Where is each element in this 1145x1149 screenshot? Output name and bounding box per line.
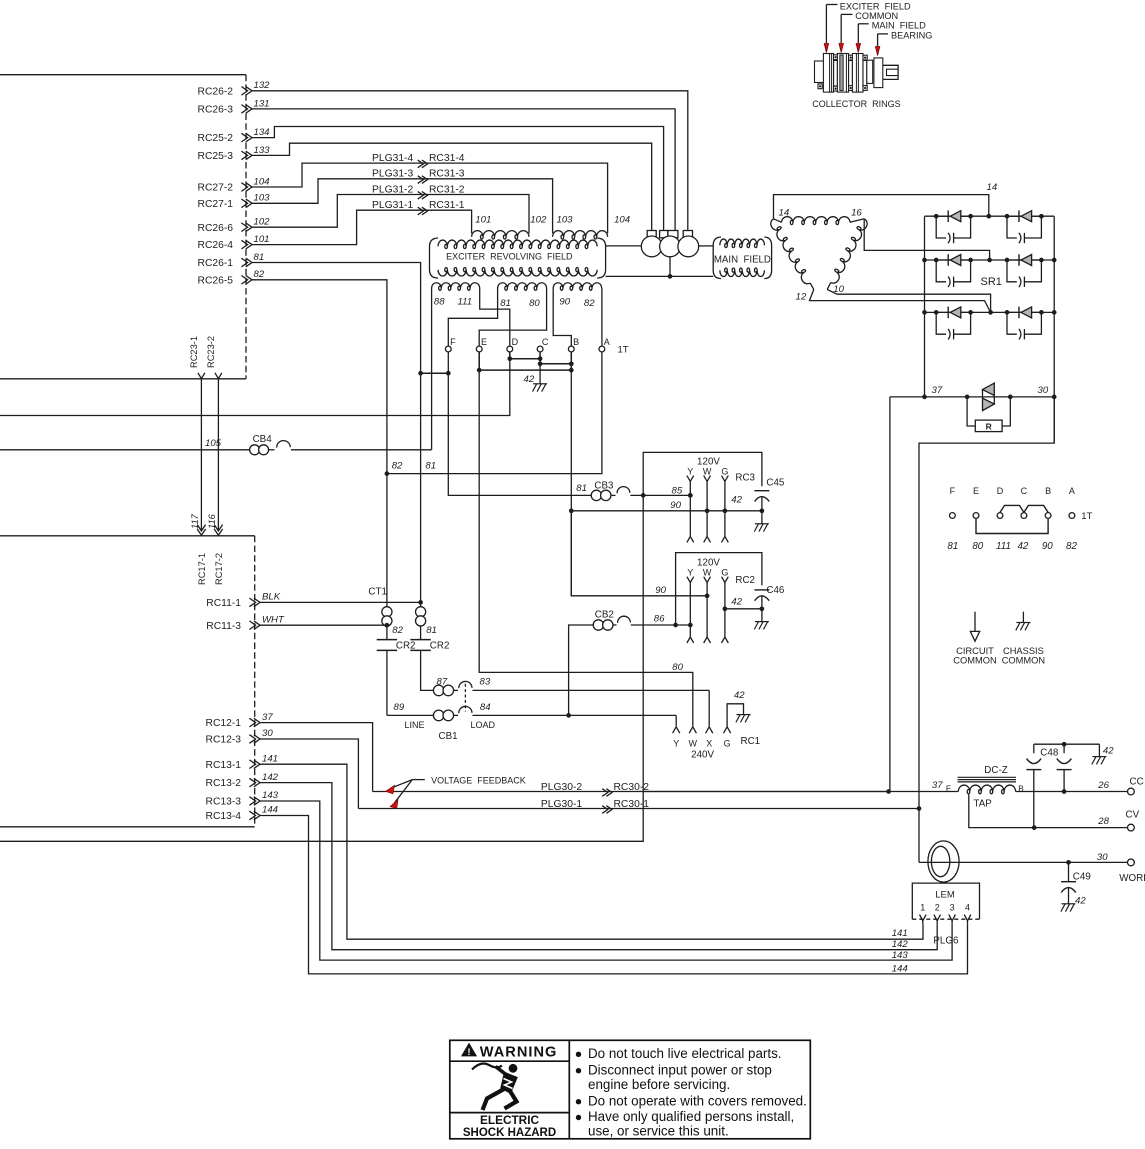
svg-text:Do not touch live electrical p: Do not touch live electrical parts. xyxy=(588,1046,782,1061)
delta left coil xyxy=(769,218,813,286)
connector RC23-2 xyxy=(215,373,222,379)
link 81-F xyxy=(421,372,449,374)
voltage feedback arrow 2 xyxy=(390,800,398,809)
wire coil2-left to F xyxy=(448,288,497,346)
diode SR1-1 xyxy=(936,215,970,217)
diode SR1-5 xyxy=(936,311,970,313)
svg-text:87: 87 xyxy=(437,677,448,688)
svg-text:RC31-3: RC31-3 xyxy=(429,169,465,180)
CB1 trip tie xyxy=(464,684,466,712)
chassis common symbol xyxy=(1022,612,1024,623)
svg-text:30: 30 xyxy=(262,728,273,739)
circuit breaker CB1 pole 87-83 xyxy=(433,685,444,696)
svg-text:EXCITER REVOLVING FIELD: EXCITER REVOLVING FIELD xyxy=(446,251,573,261)
svg-text:D: D xyxy=(997,486,1004,496)
svg-text:F: F xyxy=(450,337,456,347)
collector rings drawing xyxy=(815,61,824,83)
svg-text:81: 81 xyxy=(254,252,265,263)
svg-text:141: 141 xyxy=(262,753,278,764)
svg-text:RC25-2: RC25-2 xyxy=(198,133,234,144)
legend link D-C xyxy=(1000,505,1024,512)
svg-text:142: 142 xyxy=(262,772,279,783)
svg-text:B: B xyxy=(1018,784,1024,793)
svg-text:ELECTRIC: ELECTRIC xyxy=(480,1113,539,1127)
svg-text:C46: C46 xyxy=(766,585,785,596)
svg-text:82: 82 xyxy=(254,269,265,280)
svg-text:30: 30 xyxy=(1038,385,1049,396)
delta top coil xyxy=(782,217,851,225)
voltage feedback arrow 1 xyxy=(386,785,395,794)
wire B-CC xyxy=(1016,791,1128,793)
svg-text:81: 81 xyxy=(425,461,436,472)
chassis ground C49 xyxy=(1062,903,1076,905)
svg-text:W: W xyxy=(703,466,712,476)
svg-text:RC27-1: RC27-1 xyxy=(198,199,234,210)
svg-text:90: 90 xyxy=(670,500,681,511)
svg-text:42: 42 xyxy=(1017,541,1028,552)
svg-text:CB3: CB3 xyxy=(594,480,614,491)
svg-text:1: 1 xyxy=(920,903,925,913)
svg-text:RC25-3: RC25-3 xyxy=(198,151,234,162)
svg-text:82: 82 xyxy=(392,625,403,636)
svg-text:105: 105 xyxy=(205,438,222,449)
SR1 right bus xyxy=(1053,216,1055,443)
coil 101-102 xyxy=(472,231,529,239)
svg-text:90: 90 xyxy=(655,585,666,596)
wire 643 riser xyxy=(0,495,643,841)
coil 81-80 xyxy=(498,283,547,291)
wire A to 82 xyxy=(387,352,602,474)
svg-text:111: 111 xyxy=(996,541,1011,552)
svg-text:PLG30-2: PLG30-2 xyxy=(541,782,582,793)
brush holder rects xyxy=(647,231,656,238)
wire 144 xyxy=(260,816,968,974)
svg-text:89: 89 xyxy=(394,702,405,713)
svg-text:RC31-2: RC31-2 xyxy=(429,184,465,195)
svg-text:CC: CC xyxy=(1130,776,1144,787)
terminal A xyxy=(599,346,605,352)
wire 90 RC2 xyxy=(571,511,707,596)
receptacle RC2 box xyxy=(676,553,762,625)
svg-text:90: 90 xyxy=(559,297,570,308)
svg-text:Y: Y xyxy=(687,567,693,577)
terminal WORK xyxy=(1128,859,1135,866)
SR1 row 1 line xyxy=(925,215,1055,217)
svg-text:144: 144 xyxy=(262,805,278,816)
svg-text:Y: Y xyxy=(673,739,679,749)
circuit breaker CB2 xyxy=(593,620,603,630)
wire 131 xyxy=(252,109,675,231)
svg-text:RC31-4: RC31-4 xyxy=(429,153,465,164)
warning box frame xyxy=(450,1040,811,1139)
wire 117 xyxy=(200,379,202,531)
svg-text:RC12-1: RC12-1 xyxy=(206,718,242,729)
svg-text:PLG31-3: PLG31-3 xyxy=(372,169,413,180)
link D-C xyxy=(510,352,540,359)
wire B down xyxy=(570,352,572,596)
svg-text:COMMON: COMMON xyxy=(953,656,996,666)
chassis ground at C46 xyxy=(755,621,769,623)
wire 10 to SR1 xyxy=(827,289,990,312)
svg-text:84: 84 xyxy=(480,702,491,713)
LEM box xyxy=(912,883,979,919)
svg-text:82: 82 xyxy=(1066,541,1077,552)
inductor DC-Z coil xyxy=(958,785,1015,794)
svg-text:A: A xyxy=(604,337,610,347)
terminal D xyxy=(507,346,513,352)
svg-text:86: 86 xyxy=(654,614,665,625)
chassis ground C48 xyxy=(1098,744,1100,756)
svg-text:C: C xyxy=(1021,486,1028,496)
terminal C xyxy=(537,346,543,352)
svg-text:RC13-3: RC13-3 xyxy=(206,797,242,808)
svg-text:COLLECTOR RINGS: COLLECTOR RINGS xyxy=(812,99,900,109)
svg-text:E: E xyxy=(946,784,952,793)
svg-text:!: ! xyxy=(468,1047,471,1057)
wire PLG30-2 RC30-2 xyxy=(373,791,889,793)
svg-text:143: 143 xyxy=(892,950,909,961)
wire 104 xyxy=(252,163,608,229)
svg-text:240V: 240V xyxy=(691,750,714,761)
warning triangle icon xyxy=(462,1044,476,1056)
link C-B xyxy=(540,352,571,364)
svg-text:104: 104 xyxy=(614,215,630,226)
svg-text:RC12-3: RC12-3 xyxy=(206,735,242,746)
wire 12 to SR1 xyxy=(810,289,991,312)
svg-text:engine before servicing.: engine before servicing. xyxy=(588,1077,730,1092)
wire 37-E xyxy=(643,791,958,793)
svg-text:G: G xyxy=(721,567,728,577)
link E-B xyxy=(479,352,571,370)
svg-text:80: 80 xyxy=(972,541,983,552)
wire coil3-right to A xyxy=(601,288,603,346)
svg-text:C48: C48 xyxy=(1040,748,1059,759)
terminal CV xyxy=(1128,824,1135,831)
connector RC17-2 xyxy=(214,525,222,531)
svg-text:102: 102 xyxy=(254,217,271,228)
resistor R xyxy=(967,397,975,426)
diode SR1-6 xyxy=(1007,311,1041,313)
svg-text:42: 42 xyxy=(734,690,745,701)
svg-text:RC17-1: RC17-1 xyxy=(197,553,207,585)
svg-text:B: B xyxy=(1045,486,1051,496)
svg-text:103: 103 xyxy=(254,193,271,204)
receptacle RC3 box xyxy=(643,452,762,495)
svg-text:RC13-4: RC13-4 xyxy=(206,811,242,822)
svg-text:RC26-1: RC26-1 xyxy=(198,258,234,269)
electric shock pictogram xyxy=(472,1064,502,1070)
SR1 left bus xyxy=(924,216,926,397)
RC3 pins xyxy=(687,476,690,482)
svg-text:W: W xyxy=(689,739,698,749)
current transformer CT1 xyxy=(382,607,392,617)
svg-text:LINE: LINE xyxy=(405,720,425,730)
wire 30 down xyxy=(919,397,1054,863)
svg-text:37: 37 xyxy=(262,712,273,723)
svg-text:42: 42 xyxy=(524,374,535,385)
svg-text:90: 90 xyxy=(1042,541,1053,552)
svg-text:101: 101 xyxy=(475,215,491,226)
svg-text:C: C xyxy=(542,337,549,347)
circuit common symbol xyxy=(974,612,976,632)
svg-text:37: 37 xyxy=(932,385,943,396)
delta right coil xyxy=(829,218,870,285)
svg-text:RC13-2: RC13-2 xyxy=(206,778,242,789)
chassis ground at C45 xyxy=(755,523,769,525)
svg-text:RC2: RC2 xyxy=(735,575,755,586)
svg-text:12: 12 xyxy=(796,292,807,303)
junction BLK-81 xyxy=(418,600,423,605)
wire coil2-right to E xyxy=(479,288,546,346)
capacitor C45 xyxy=(754,490,769,492)
wire 133 xyxy=(252,143,652,230)
RC1 ground xyxy=(727,704,743,727)
svg-text:C49: C49 xyxy=(1073,871,1091,882)
svg-text:88: 88 xyxy=(434,297,445,308)
svg-text:TAP: TAP xyxy=(974,799,993,810)
PC board box1 outline xyxy=(0,74,246,76)
svg-text:42: 42 xyxy=(731,494,742,505)
wire 30 through LEM xyxy=(919,861,1128,863)
wire 101 xyxy=(252,210,472,244)
capacitor C49 xyxy=(1068,862,1070,881)
svg-text:RC26-5: RC26-5 xyxy=(198,275,234,286)
svg-text:141: 141 xyxy=(892,928,908,939)
svg-text:RC31-1: RC31-1 xyxy=(429,200,465,211)
svg-text:81: 81 xyxy=(947,541,958,552)
svg-text:G: G xyxy=(721,466,728,476)
svg-text:PLG6: PLG6 xyxy=(933,936,959,947)
connector RC17-1 xyxy=(197,525,205,531)
svg-text:16: 16 xyxy=(851,207,862,218)
svg-text:RC30-1: RC30-1 xyxy=(614,799,650,810)
diode SR1-4 xyxy=(1007,259,1041,261)
svg-text:BLK: BLK xyxy=(262,592,281,603)
svg-text:26: 26 xyxy=(1097,780,1109,791)
circuit breaker CB1 pole 89-84 xyxy=(387,714,434,716)
wire 37 down xyxy=(889,397,891,792)
LEM toroid xyxy=(928,841,959,882)
svg-text:WHT: WHT xyxy=(262,614,285,625)
svg-text:B: B xyxy=(573,337,579,347)
svg-text:37: 37 xyxy=(932,780,943,791)
SR1 row 3 line xyxy=(925,311,1055,313)
svg-text:42: 42 xyxy=(731,596,742,607)
svg-text:133: 133 xyxy=(254,145,271,156)
svg-text:PLG30-1: PLG30-1 xyxy=(541,799,582,810)
svg-text:81: 81 xyxy=(426,625,437,636)
svg-text:DC-Z: DC-Z xyxy=(984,765,1007,776)
warning bullet text xyxy=(576,1052,581,1057)
svg-text:F: F xyxy=(950,486,956,496)
svg-text:14: 14 xyxy=(987,182,998,193)
circuit breaker CB3 xyxy=(591,490,601,500)
suppressor device xyxy=(983,383,995,395)
wire D down-left xyxy=(0,352,510,416)
exciter revolving field winding xyxy=(438,240,597,249)
svg-text:C45: C45 xyxy=(766,477,785,488)
svg-text:CB2: CB2 xyxy=(595,610,614,621)
junction 84 to CB2 xyxy=(566,713,571,718)
wire 134 xyxy=(252,127,664,231)
svg-text:RC26-4: RC26-4 xyxy=(198,240,234,251)
svg-text:132: 132 xyxy=(254,80,271,91)
SR1 row 2 line xyxy=(925,259,1055,261)
terminal E xyxy=(476,346,482,352)
svg-text:RC3: RC3 xyxy=(735,472,755,483)
RC1 pins xyxy=(673,727,677,733)
svg-text:103: 103 xyxy=(557,215,574,226)
wire 81 vertical xyxy=(252,263,421,640)
svg-text:RC13-1: RC13-1 xyxy=(206,760,242,771)
svg-text:83: 83 xyxy=(480,677,491,688)
svg-text:D: D xyxy=(512,337,519,347)
svg-text:SR1: SR1 xyxy=(981,276,1002,288)
svg-text:PLG31-1: PLG31-1 xyxy=(372,200,413,211)
wire 14 to SR1 xyxy=(774,195,989,219)
svg-text:1T: 1T xyxy=(618,345,629,356)
wire 81 to CB1 xyxy=(421,650,434,690)
svg-text:85: 85 xyxy=(672,485,683,496)
wire exciter to brush xyxy=(606,245,642,247)
terminal CC xyxy=(1128,788,1135,795)
junction 82-A xyxy=(385,471,390,476)
svg-text:144: 144 xyxy=(892,963,908,974)
svg-text:PLG31-4: PLG31-4 xyxy=(372,153,413,164)
wire coil1-right to D xyxy=(480,288,510,346)
DC-Z tap xyxy=(969,795,1128,828)
svg-text:RC26-2: RC26-2 xyxy=(198,86,234,97)
legend link E-B xyxy=(976,519,1048,534)
wire 141 xyxy=(260,764,923,939)
svg-text:RC1: RC1 xyxy=(741,736,761,747)
connector RC23-1 xyxy=(198,373,205,379)
svg-text:2: 2 xyxy=(935,903,940,913)
svg-text:143: 143 xyxy=(262,790,279,801)
suppressor row xyxy=(890,396,1054,398)
wire 143 xyxy=(260,801,952,960)
wire 90 RC3 xyxy=(571,510,762,512)
svg-text:104: 104 xyxy=(254,176,270,187)
svg-text:CIRCUIT: CIRCUIT xyxy=(956,646,994,656)
svg-text:G: G xyxy=(724,739,731,749)
contact CR2 left xyxy=(377,639,397,641)
main field winding xyxy=(720,239,765,248)
svg-text:WORK: WORK xyxy=(1119,873,1145,884)
svg-text:VOLTAGE FEEDBACK: VOLTAGE FEEDBACK xyxy=(431,776,526,786)
svg-text:CB1: CB1 xyxy=(439,731,458,742)
RC2 pins xyxy=(687,577,690,583)
svg-text:RC26-3: RC26-3 xyxy=(198,105,234,116)
svg-text:PLG31-2: PLG31-2 xyxy=(372,184,413,195)
diode SR1-2 xyxy=(1007,215,1041,217)
wire 102 xyxy=(252,195,529,230)
svg-text:1T: 1T xyxy=(1081,511,1092,522)
svg-text:142: 142 xyxy=(892,939,909,950)
legend terminal circles xyxy=(950,513,956,519)
svg-text:131: 131 xyxy=(254,98,270,109)
svg-text:4: 4 xyxy=(965,903,970,913)
svg-text:102: 102 xyxy=(530,215,547,226)
wire 37 stair xyxy=(260,723,373,792)
wire 82 to CB1 xyxy=(386,650,388,715)
circuit breaker CB4 xyxy=(0,449,250,451)
svg-text:CR2: CR2 xyxy=(430,640,450,651)
terminal F xyxy=(445,346,451,352)
svg-text:E: E xyxy=(481,337,487,347)
svg-text:W: W xyxy=(703,567,712,577)
wire 16 to SR1 xyxy=(864,219,989,260)
svg-text:LEM: LEM xyxy=(935,890,955,901)
collector rings leader labels xyxy=(826,4,837,6)
wire 132 xyxy=(252,91,688,231)
svg-text:RC11-3: RC11-3 xyxy=(206,621,241,632)
svg-text:14: 14 xyxy=(779,207,790,218)
svg-text:E: E xyxy=(973,486,979,496)
svg-text:82: 82 xyxy=(392,461,403,472)
svg-text:80: 80 xyxy=(529,298,540,309)
svg-text:80: 80 xyxy=(672,662,683,673)
svg-text:134: 134 xyxy=(254,127,270,138)
svg-text:111: 111 xyxy=(458,297,473,308)
svg-text:42: 42 xyxy=(1103,746,1114,757)
svg-text:28: 28 xyxy=(1097,816,1109,827)
contact CR2 right xyxy=(410,639,430,641)
wire E to 80 xyxy=(479,352,693,727)
svg-text:use, or service this unit.: use, or service this unit. xyxy=(588,1123,729,1138)
terminal B xyxy=(568,346,574,352)
svg-text:Have only qualified persons in: Have only qualified persons install, xyxy=(588,1109,794,1124)
svg-text:3: 3 xyxy=(950,903,955,913)
coil 103-104 xyxy=(553,231,608,239)
wire 142 xyxy=(260,783,937,950)
coil 90-82 xyxy=(553,283,602,291)
svg-text:CHASSIS: CHASSIS xyxy=(1003,646,1044,656)
wire 84 up to CB2 xyxy=(569,625,594,715)
svg-text:CT1: CT1 xyxy=(368,587,387,598)
wire 103 xyxy=(252,179,553,230)
svg-text:SHOCK HAZARD: SHOCK HAZARD xyxy=(463,1127,556,1139)
svg-text:A: A xyxy=(1069,486,1075,496)
svg-text:RC23-2: RC23-2 xyxy=(206,336,216,368)
legend link C-B xyxy=(1024,505,1048,512)
svg-text:COMMON: COMMON xyxy=(1002,656,1045,666)
svg-text:81: 81 xyxy=(576,483,587,494)
svg-text:BEARING: BEARING xyxy=(891,31,932,41)
coil 88-111 xyxy=(432,283,480,291)
chassis ground 42 at C xyxy=(539,364,541,384)
svg-text:RC26-6: RC26-6 xyxy=(198,223,234,234)
svg-text:EXCITER FIELD: EXCITER FIELD xyxy=(840,1,911,11)
diode SR1-3 xyxy=(936,259,970,261)
svg-text:CR2: CR2 xyxy=(396,640,416,651)
svg-text:42: 42 xyxy=(1075,896,1086,907)
svg-text:R: R xyxy=(986,421,992,431)
svg-text:LOAD: LOAD xyxy=(471,720,496,730)
svg-text:CV: CV xyxy=(1126,809,1140,820)
svg-text:101: 101 xyxy=(254,234,270,245)
svg-text:Disconnect input power or stop: Disconnect input power or stop xyxy=(588,1063,772,1078)
svg-text:RC11-1: RC11-1 xyxy=(206,598,241,609)
svg-text:82: 82 xyxy=(584,298,595,309)
svg-text:CB4: CB4 xyxy=(253,434,273,445)
wire 82 vertical xyxy=(252,280,387,640)
wire brush to main field xyxy=(699,245,714,247)
svg-text:WARNING: WARNING xyxy=(480,1045,558,1061)
svg-text:RC27-2: RC27-2 xyxy=(198,183,234,194)
wire PLG30-1 RC30-1 xyxy=(358,808,919,810)
svg-text:30: 30 xyxy=(1097,852,1108,863)
